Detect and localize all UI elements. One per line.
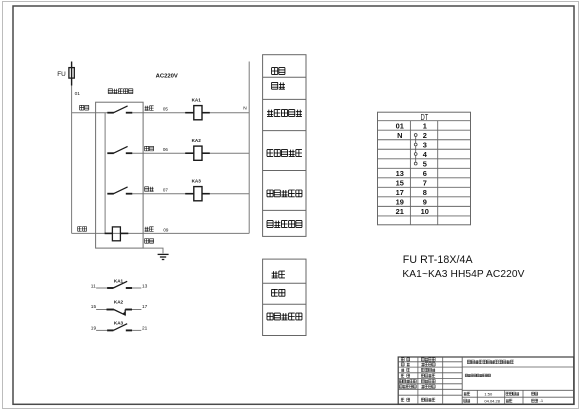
- svg-text:2: 2: [423, 131, 427, 140]
- svg-text:06: 06: [163, 147, 169, 152]
- svg-text:KA3: KA3: [114, 320, 124, 325]
- title row 4 name: [421, 374, 435, 377]
- label 黄色 07: [145, 187, 154, 192]
- svg-text:KA1~KA3 HH54P AC220V: KA1~KA3 HH54P AC220V: [402, 269, 524, 280]
- label 灰色: [145, 239, 154, 244]
- pic no cell 图号: [506, 399, 512, 402]
- svg-text:KA2: KA2: [114, 300, 124, 305]
- svg-text:21: 21: [142, 325, 148, 331]
- svg-text:19: 19: [396, 197, 404, 206]
- wire row1 (green) to receiver: [72, 112, 108, 114]
- relay coil KA2: [185, 138, 210, 160]
- receiver box 遥控接收器: [96, 102, 144, 248]
- terminal table DT: [378, 112, 471, 225]
- company name 北京天正工程软件有限公司: [467, 360, 513, 364]
- title row 3 name: [421, 368, 435, 371]
- title row 6 name: [421, 385, 435, 388]
- wire: inner common vertical in receiver: [104, 113, 106, 234]
- svg-text:01: 01: [396, 121, 404, 130]
- svg-text:15: 15: [91, 304, 97, 310]
- title row 2 label: [401, 363, 410, 366]
- wire: gray lead to ground: [143, 248, 163, 253]
- fuse FU: [69, 68, 74, 79]
- contact KA1 NO, terminals 11-13: [91, 279, 148, 290]
- svg-text:KA1: KA1: [114, 279, 124, 284]
- jumper link circles rows 2-5: [414, 134, 417, 165]
- label 保险 (upper): [272, 82, 285, 89]
- title row 1 name: [421, 358, 435, 361]
- terminal strip column (lower): [263, 259, 306, 335]
- svg-text:19: 19: [91, 325, 97, 331]
- wire: right bus N: [248, 62, 250, 234]
- title row 4 label: [401, 374, 410, 377]
- svg-text:FU RT-18X/4A: FU RT-18X/4A: [403, 254, 474, 266]
- date cell 日期 04.04.28: [464, 399, 470, 402]
- svg-text:13: 13: [142, 284, 148, 290]
- relay coil KA3: [185, 179, 210, 201]
- contact KA3 NO, terminals 19-21: [91, 320, 148, 331]
- title row 3 label: [401, 368, 410, 371]
- switch contact row1 (receiver output white): [107, 106, 132, 113]
- title row 5 name: [421, 379, 435, 382]
- scale cell 比例 1:50: [464, 392, 470, 395]
- svg-text:FU: FU: [57, 71, 66, 78]
- svg-text:KA2: KA2: [192, 138, 202, 143]
- wire row1 white 05 to bus: [132, 112, 249, 114]
- svg-text:8: 8: [423, 188, 427, 197]
- label green 绿色: [80, 105, 89, 110]
- label 开门继电器: [267, 110, 302, 117]
- wire row2 red 06: [132, 152, 249, 154]
- svg-text:1: 1: [423, 121, 427, 130]
- svg-text:9: 9: [423, 197, 427, 206]
- wire: 01 phase line from supply through fuse, x=71.6: [71, 62, 73, 234]
- sheet cell 图纸编号: [506, 392, 519, 395]
- svg-text:17: 17: [396, 188, 404, 197]
- svg-text:KA3: KA3: [192, 179, 202, 184]
- label 停止继电器: [267, 150, 302, 157]
- label 保险 (lower): [272, 289, 285, 296]
- svg-text:04.04.28: 04.04.28: [484, 398, 500, 403]
- svg-text:05: 05: [163, 107, 169, 112]
- svg-text:15: 15: [396, 178, 404, 187]
- relay coil KA1: [185, 98, 210, 120]
- no cell 图1: [532, 392, 538, 395]
- label 红色 06: [145, 146, 154, 151]
- title row 6 label: [399, 385, 416, 388]
- sheet id cell: [532, 399, 538, 402]
- svg-text:6: 6: [423, 169, 427, 178]
- title row 1 label: [401, 358, 410, 361]
- svg-text:7: 7: [423, 178, 427, 187]
- svg-text:N: N: [243, 106, 247, 112]
- title block: [398, 357, 574, 404]
- label 关门继电器: [267, 190, 302, 197]
- fuse inside receiver (row4): [105, 227, 129, 241]
- title row 8 label: [401, 398, 410, 401]
- wire row4 purple/black 09: [72, 232, 250, 234]
- svg-text:21: 21: [396, 207, 404, 216]
- svg-text:09: 09: [163, 228, 169, 233]
- svg-text:KA1: KA1: [192, 98, 202, 103]
- svg-text:3: 3: [423, 140, 427, 149]
- terminal strip column (upper): [263, 55, 306, 237]
- drawing title: [465, 374, 490, 377]
- svg-text:AC220V: AC220V: [156, 74, 178, 80]
- switch contact row3 (receiver output yellow): [107, 187, 132, 194]
- svg-text:5: 5: [423, 159, 427, 168]
- label 开门继电器 (lower): [267, 313, 302, 320]
- contact KA2 NC, terminals 15-17: [91, 300, 148, 317]
- svg-text:07: 07: [163, 188, 169, 193]
- switch contact row2 (receiver output red): [107, 146, 132, 153]
- label 接收器电源: [267, 221, 302, 228]
- svg-text:11: 11: [91, 284, 96, 290]
- svg-text:1:50: 1:50: [484, 391, 493, 396]
- title row 2 name: [421, 363, 435, 366]
- label 电源 (upper): [272, 68, 285, 75]
- svg-text:N: N: [397, 131, 402, 140]
- label 遥控接收器: [108, 89, 133, 94]
- wire row3 yellow 07: [132, 193, 249, 195]
- title row 5 label: [399, 380, 416, 383]
- title row 8 name: [421, 398, 435, 401]
- svg-text:17: 17: [142, 304, 148, 310]
- label 电源 (lower): [272, 271, 285, 278]
- svg-text:01: 01: [75, 91, 81, 97]
- label 白色 05: [145, 106, 154, 111]
- label 黑色 09: [145, 227, 154, 232]
- label 紫色: [78, 227, 87, 232]
- ground: [158, 254, 169, 259]
- svg-text:13: 13: [396, 169, 404, 178]
- svg-text:10: 10: [421, 207, 429, 216]
